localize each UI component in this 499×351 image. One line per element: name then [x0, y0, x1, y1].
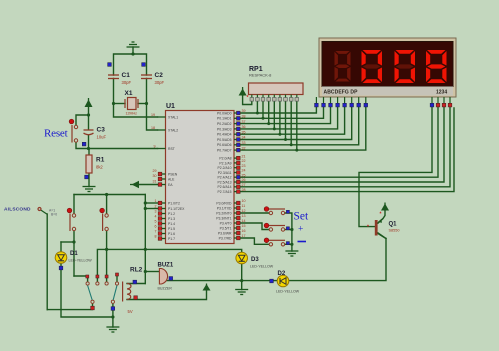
svg-text:P2.7/A15: P2.7/A15	[218, 190, 232, 194]
svg-text:26: 26	[242, 178, 246, 182]
wire: relay coil top pin	[127, 283, 145, 285]
ground below D3	[235, 290, 248, 295]
U1 pin numbers right	[242, 109, 246, 238]
capacitor C3 (polarized)	[84, 130, 94, 135]
resistor pack RP1	[249, 83, 304, 95]
U1 right pin stubs	[234, 113, 240, 238]
svg-text:P1.7: P1.7	[168, 237, 175, 241]
junction RP1-P0.7	[295, 149, 298, 152]
wire: P0.6 to segment G	[240, 107, 359, 145]
svg-text:22: 22	[242, 159, 246, 163]
svg-text:*: *	[367, 225, 369, 231]
junction RP1-P0.0	[256, 112, 259, 115]
svg-text:RESPACK-8: RESPACK-8	[249, 73, 272, 78]
svg-text:30pF: 30pF	[122, 80, 132, 85]
svg-text:C3: C3	[97, 127, 106, 134]
svg-text:P0.6/AD6: P0.6/AD6	[217, 143, 232, 147]
svg-text:P3.1/TXD: P3.1/TXD	[217, 206, 232, 210]
ground below R1	[83, 187, 96, 192]
display segment pin stubs	[316, 97, 450, 103]
wire: rail under chip to D3	[107, 249, 242, 252]
wire: Q1 emitter to VCC	[378, 211, 385, 224]
display pin state squares	[315, 103, 452, 107]
svg-text:P0.0/AD0: P0.0/AD0	[217, 111, 232, 115]
svg-text:3: 3	[155, 209, 157, 213]
svg-text:LED-YELLOW: LED-YELLOW	[69, 259, 93, 263]
junction RP1-P0.5	[284, 138, 287, 141]
wire: button B drop	[106, 195, 108, 215]
wire: RP1 common pin to VCC arrow	[243, 96, 252, 105]
svg-text:RST: RST	[168, 147, 175, 151]
LED D3	[236, 252, 248, 264]
wire: D3 bottom to ground	[241, 264, 243, 290]
7-seg digit 2 (bright 0)	[362, 50, 383, 83]
wire: VCC arrow stem to reset node	[88, 107, 90, 115]
junction crystal right stub	[145, 102, 148, 105]
wire: buzzer output rail to Q1 collector	[167, 239, 386, 281]
junction minus button common	[290, 243, 293, 246]
svg-text:C1: C1	[122, 72, 131, 79]
7-seg digit 4 (bright 8)	[426, 50, 447, 83]
wire: R1 bottom to ground	[88, 173, 90, 187]
svg-text:11: 11	[242, 204, 246, 208]
svg-text:35: 35	[242, 130, 246, 134]
svg-text:1: 1	[155, 199, 157, 203]
plus push button (horizontal)	[264, 223, 285, 231]
svg-text:6: 6	[155, 224, 157, 228]
power arrow left of RP1	[239, 87, 247, 96]
wire: RP1 pin 6 drop	[279, 101, 281, 134]
svg-text:2: 2	[155, 204, 157, 208]
LED D2	[277, 275, 289, 287]
wire: button B bottom down	[106, 231, 108, 250]
wire: P3.2 to Set button	[240, 212, 269, 214]
svg-text:P3.3/INT1: P3.3/INT1	[216, 216, 231, 220]
wire: Set buttons common right vertical	[285, 213, 292, 251]
svg-text:B=0: B=0	[51, 213, 57, 217]
svg-text:12: 12	[242, 209, 246, 213]
LED D1	[55, 252, 67, 264]
RP1 pin stubs and squares	[252, 95, 297, 99]
wire: stub D1 to button A	[61, 241, 74, 243]
junction button B rail tap	[105, 193, 108, 196]
wire: digit2 line to P2.4	[240, 107, 438, 177]
op-amp U1 microcontroller body	[166, 111, 235, 244]
svg-text:10uF: 10uF	[97, 135, 107, 140]
svg-text:LED-YELLOW: LED-YELLOW	[276, 290, 300, 294]
wire: RP1 pin 7 drop	[285, 101, 287, 140]
svg-text:P2.1/A9: P2.1/A9	[219, 161, 231, 165]
junction crystal rail	[131, 52, 134, 55]
svg-text:32: 32	[242, 146, 246, 150]
svg-text:P0.5/AD5: P0.5/AD5	[217, 138, 232, 142]
wire: digit4 line to P2.6	[240, 107, 450, 187]
svg-text:8k2: 8k2	[96, 165, 103, 170]
svg-text:39: 39	[242, 109, 246, 113]
svg-text:XTAL1: XTAL1	[168, 115, 178, 119]
wire: node to R1 top	[88, 149, 90, 156]
wire: C2 bottom to XTAL2	[147, 79, 158, 131]
wire: RP1 pin 2 drop	[256, 101, 258, 113]
svg-text:30pF: 30pF	[155, 80, 165, 85]
junction contact ground node	[111, 315, 114, 318]
svg-text:*: *	[380, 212, 382, 218]
wire: P1 vertical from rail	[144, 195, 146, 284]
svg-text:5: 5	[155, 219, 157, 223]
wire: P0.7 to segment DP	[240, 107, 366, 150]
wire: P0.2 to segment C	[240, 107, 330, 124]
svg-text:P2.3/A11: P2.3/A11	[218, 171, 232, 175]
svg-text:33: 33	[242, 141, 246, 145]
AIRCOND switch	[38, 208, 48, 215]
svg-text:RL2: RL2	[130, 267, 143, 274]
svg-text:4: 4	[155, 214, 157, 218]
junction reset RST node	[87, 147, 90, 150]
Set push button (horizontal)	[264, 207, 285, 215]
svg-text:38: 38	[242, 115, 246, 119]
power arrow above reset node	[85, 98, 93, 107]
svg-text:27: 27	[242, 183, 246, 187]
wire: P0.3 to segment D	[240, 107, 338, 129]
wire: AIRCOND switch drop	[46, 214, 48, 310]
svg-text:S8550: S8550	[389, 229, 400, 233]
U1 left pin stubs	[158, 117, 166, 239]
svg-text:10: 10	[242, 199, 246, 203]
wire: to left contact pole	[47, 303, 92, 310]
junction under-chip rail tap	[144, 248, 147, 251]
svg-text:X1: X1	[125, 90, 133, 97]
wire: RP1 pin 5 drop	[273, 101, 275, 129]
ground below relay contacts	[106, 327, 119, 332]
junction buzzer pin tap	[144, 270, 147, 273]
svg-text:P3.4/T0: P3.4/T0	[220, 221, 232, 225]
svg-text:ABCDEFG DP: ABCDEFG DP	[324, 90, 359, 96]
junction P1.1 tap	[144, 207, 147, 210]
wire: button A drop	[73, 195, 75, 215]
junction RP1-P0.3	[273, 127, 276, 130]
svg-text:P1.4: P1.4	[168, 222, 175, 226]
svg-text:P2.0/A8: P2.0/A8	[219, 157, 231, 161]
svg-text:18: 18	[151, 126, 155, 130]
svg-text:Set: Set	[294, 211, 310, 223]
wire: C3 vertical bottom	[88, 135, 90, 149]
wire: crystal top rail	[114, 54, 147, 75]
svg-text:C2: C2	[155, 72, 164, 79]
svg-text:P2.4/A12: P2.4/A12	[218, 176, 232, 180]
junction plus button common	[290, 228, 293, 231]
wire: reset top node to button	[76, 115, 89, 126]
7-seg digit 3 (bright 0)	[395, 50, 416, 83]
svg-text:8: 8	[155, 234, 157, 238]
svg-text:P3.0/RXD: P3.0/RXD	[216, 201, 232, 205]
junction RP1-P0.6	[290, 143, 293, 146]
svg-text:PSEN: PSEN	[168, 172, 178, 176]
relay contact terminals	[86, 282, 119, 304]
svg-text:D3: D3	[251, 257, 259, 263]
svg-text:P1.1/T2EX: P1.1/T2EX	[168, 207, 185, 211]
svg-text:U1: U1	[166, 103, 175, 110]
wire: P0.5 to segment F	[240, 107, 352, 140]
relay RL2 coil	[123, 282, 131, 302]
wire: RP1 pin 8 drop	[290, 101, 292, 145]
wire: D1 bottom down	[61, 263, 113, 317]
wire: P0.1 to segment B	[240, 107, 323, 118]
svg-text:ALE: ALE	[168, 177, 175, 181]
U1 left pin state squares	[158, 172, 162, 240]
svg-text:P2.2/A10: P2.2/A10	[218, 166, 232, 170]
svg-text:+: +	[298, 225, 303, 235]
svg-text:7: 7	[155, 229, 157, 233]
wire: EA power arrow	[139, 184, 158, 186]
svg-text:9: 9	[154, 144, 156, 148]
power arrow at EA (pointing left)	[130, 181, 139, 188]
svg-text:31: 31	[153, 179, 157, 183]
svg-text:17: 17	[242, 234, 246, 238]
wire: contact stub4	[116, 275, 118, 283]
wire: button A to contact stub1	[74, 276, 88, 282]
push button B	[100, 208, 109, 231]
transistor Q1	[375, 219, 386, 239]
svg-text:25: 25	[242, 173, 246, 177]
junction RP1-P0.4	[278, 133, 281, 136]
wire: digit1 line to Q1 base drop	[359, 107, 432, 227]
junction button A stub node	[72, 240, 75, 243]
crystal X1	[125, 98, 138, 110]
wire: D1 top feed	[60, 242, 62, 252]
svg-text:P1.5: P1.5	[168, 227, 175, 231]
wire: digit3 line to P2.5	[240, 107, 444, 182]
junction RP1-P0.2	[267, 122, 270, 125]
junction D3 rail node	[240, 279, 243, 282]
wire: crystal left stub	[114, 103, 126, 105]
minus push button (horizontal)	[264, 238, 285, 246]
junction button B bottom node	[105, 248, 108, 251]
svg-text:R1: R1	[96, 157, 105, 164]
wire: reset node to RST pin	[89, 148, 158, 150]
wire: RP1 pin 4 drop	[268, 101, 270, 124]
buzzer BUZ1	[159, 269, 167, 285]
svg-text:BUZ1: BUZ1	[158, 263, 174, 269]
svg-text:19: 19	[151, 113, 155, 117]
wire: contact stub3	[106, 249, 108, 282]
svg-text:P0.2/AD2: P0.2/AD2	[217, 122, 232, 126]
svg-text:D1: D1	[70, 251, 78, 257]
U1 internal pin labels	[168, 115, 185, 240]
svg-text:29: 29	[153, 169, 157, 173]
7-seg digit 1 (dim 8)	[335, 51, 351, 82]
wire: relay coil bottom to VCC arrow	[127, 291, 207, 300]
junction crystal left stub	[112, 102, 115, 105]
svg-text:36: 36	[242, 125, 246, 129]
svg-text:Q1: Q1	[389, 222, 398, 228]
wire: C3 vertical top	[88, 115, 90, 130]
svg-text:12MHz: 12MHz	[126, 112, 138, 116]
wire: ground stem below contacts	[112, 317, 114, 327]
wire: buzzer left pin	[145, 271, 159, 273]
wire: C1 bottom to XTAL1	[114, 79, 158, 118]
svg-text:1234: 1234	[436, 90, 447, 96]
push button A	[67, 208, 76, 231]
resistor R1	[86, 155, 92, 173]
capacitor C2	[141, 75, 152, 79]
reset push button	[69, 119, 78, 142]
svg-text:P0.1/AD1: P0.1/AD1	[217, 117, 232, 121]
svg-text:D2: D2	[278, 271, 286, 277]
svg-text:21: 21	[242, 154, 246, 158]
wire: P0.0 to segment A	[240, 107, 316, 113]
svg-text:P3.5/T1: P3.5/T1	[220, 226, 232, 230]
svg-text:P2.5/A13: P2.5/A13	[218, 180, 232, 184]
power arrow above Q1	[381, 203, 389, 211]
wire: ground stem above crystal rail	[132, 47, 134, 54]
svg-text:P1.0/T2: P1.0/T2	[168, 201, 180, 205]
svg-text:16: 16	[242, 229, 246, 233]
svg-text:13: 13	[242, 214, 246, 218]
ground below Set buttons	[285, 251, 298, 256]
svg-text:15: 15	[242, 224, 246, 228]
capacitor C1	[108, 75, 119, 79]
junction RP1-P0.1	[262, 117, 265, 120]
wire: Q1 collector diagonal	[378, 234, 386, 239]
svg-text:P0.4/AD4: P0.4/AD4	[217, 133, 232, 137]
svg-text:P3.2/INT0: P3.2/INT0	[216, 211, 231, 215]
label minus	[298, 241, 307, 243]
ground at crystal rail (inverted)	[127, 42, 140, 47]
svg-text:P1.6: P1.6	[168, 232, 175, 236]
svg-text:*: *	[247, 95, 249, 101]
relay contact right blade	[113, 285, 117, 302]
wire: button A bottom down	[73, 231, 75, 277]
misc state squares	[59, 63, 289, 311]
wire: button B jog to contact stub2	[97, 249, 106, 282]
junction reset top node	[87, 113, 90, 116]
svg-text:BUZZER: BUZZER	[158, 287, 173, 291]
svg-text:14: 14	[242, 219, 246, 223]
wire: P0.4 to segment E	[240, 107, 345, 134]
svg-text:28: 28	[242, 188, 246, 192]
svg-text:30: 30	[153, 174, 157, 178]
power arrow on relay bottom wire	[203, 284, 211, 291]
svg-text:P3.6/WR: P3.6/WR	[218, 231, 232, 235]
svg-text:XTAL2: XTAL2	[168, 128, 178, 132]
wire: right contact pole stem	[112, 303, 114, 318]
svg-text:Reset: Reset	[44, 128, 68, 140]
wire: P3.4 to plus button	[240, 223, 269, 230]
svg-text:P3.7/RD: P3.7/RD	[219, 236, 232, 240]
wire: RP1 pin 9 drop	[296, 101, 298, 150]
svg-text:34: 34	[242, 136, 246, 140]
wire: P2.7 line fifth corner	[240, 108, 454, 192]
wire: RP1 pin 3 drop	[262, 101, 264, 118]
U1 pin numbers left	[151, 113, 157, 239]
svg-text:LED-YELLOW: LED-YELLOW	[250, 265, 274, 269]
svg-text:P1.2: P1.2	[168, 212, 175, 216]
junction P1.0 tap	[144, 201, 147, 204]
svg-text:AILSCOND: AILSCOND	[4, 207, 31, 213]
svg-text:P0.3/AD3: P0.3/AD3	[217, 127, 232, 131]
U1 right pin state squares	[237, 111, 241, 240]
wire: button rail top left	[74, 194, 145, 196]
wire: reset button bottom to node	[76, 142, 89, 149]
svg-text:P2.6/A14: P2.6/A14	[218, 185, 232, 189]
wire: crystal right stub	[138, 103, 147, 105]
svg-text:24: 24	[242, 169, 246, 173]
svg-text:37: 37	[242, 120, 246, 124]
7-segment display module	[319, 38, 456, 97]
wire: P1.0 stub to vertical	[145, 202, 157, 204]
svg-text:5V: 5V	[128, 309, 133, 314]
svg-text:P0.7/AD7: P0.7/AD7	[217, 149, 232, 153]
wire: P3.7 to minus button	[240, 238, 269, 244]
svg-text:EA: EA	[168, 183, 173, 187]
relay contact left blade	[87, 285, 92, 302]
svg-text:23: 23	[242, 164, 246, 168]
svg-text:P1.3: P1.3	[168, 217, 175, 221]
wire: P1.1 stub to vertical	[145, 208, 157, 210]
